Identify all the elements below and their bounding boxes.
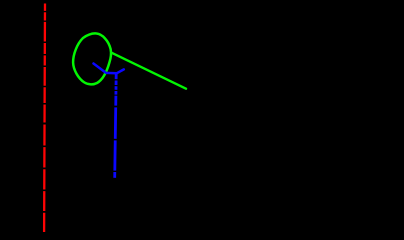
- dashed red vertical axis line: [43, 4, 46, 233]
- green rod line: [112, 53, 187, 89]
- blue swirl arrow (rotation indicator): [94, 64, 124, 74]
- blue vertical line: [115, 74, 117, 178]
- green loop (ellipse): [73, 33, 111, 84]
